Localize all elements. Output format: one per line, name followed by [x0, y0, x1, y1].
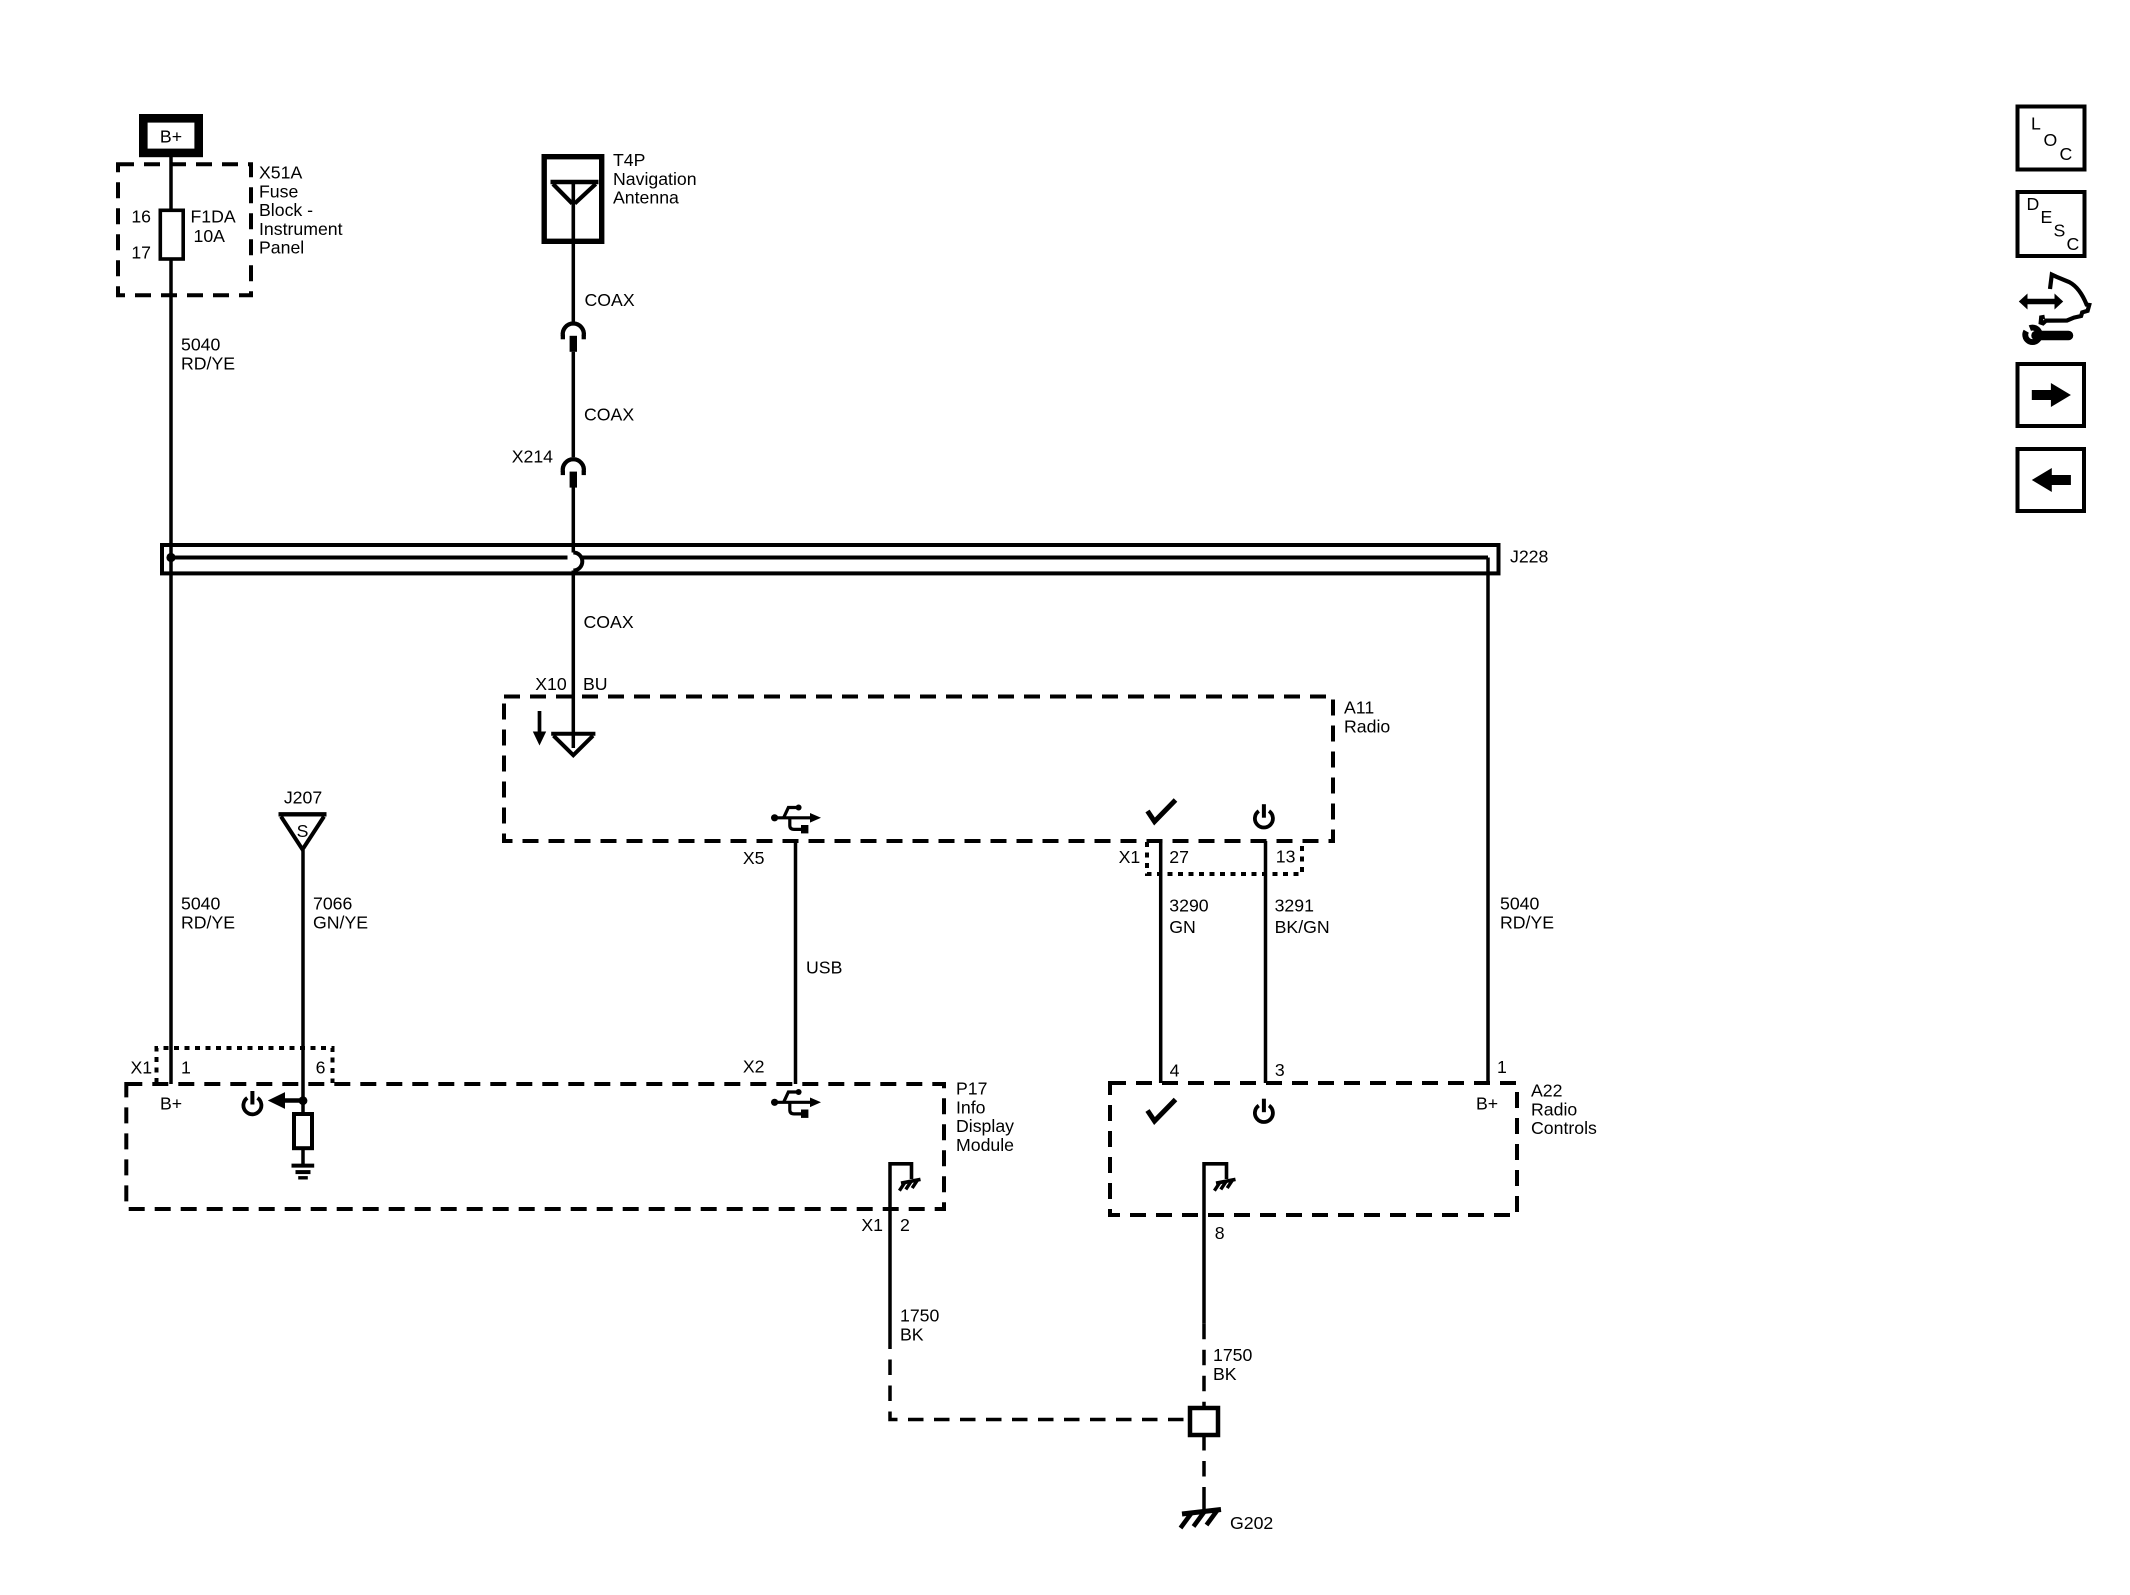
svg-text:B+: B+: [160, 127, 182, 147]
wire label 3291 BK/GN: [1275, 896, 1330, 938]
dashed wire to ground: [1202, 1435, 1206, 1496]
svg-text:5040: 5040: [181, 335, 221, 355]
coax inline connector 1: [563, 323, 584, 351]
svg-text:X1: X1: [1119, 847, 1141, 867]
junction dot: [299, 1096, 308, 1105]
wire resistor to ground: [301, 1148, 305, 1165]
X1 connector dotted box at P17: [157, 1048, 333, 1083]
wire 5040 right from bus: [1486, 558, 1490, 1084]
P17 label: [956, 1079, 1014, 1155]
svg-text:Module: Module: [956, 1135, 1014, 1155]
svg-text:COAX: COAX: [584, 405, 634, 425]
svg-text:RD/YE: RD/YE: [181, 353, 235, 373]
svg-text:Fuse: Fuse: [259, 181, 298, 201]
svg-text:1: 1: [1497, 1057, 1507, 1077]
svg-text:B+: B+: [160, 1094, 182, 1114]
svg-text:COAX: COAX: [584, 612, 634, 632]
wire pin6 into P17: [301, 1084, 305, 1114]
wire label 1750 BK left: [900, 1306, 940, 1345]
svg-text:X214: X214: [512, 447, 553, 467]
coax wire below bus: [572, 571, 576, 749]
junction dot on bus: [166, 553, 175, 562]
svg-text:5040: 5040: [181, 894, 221, 914]
arrow to power symbol: [268, 1092, 303, 1109]
svg-text:COAX: COAX: [585, 290, 635, 310]
antenna input arrow: [533, 711, 546, 746]
power symbol in A11: [1255, 804, 1273, 827]
splice square: [1190, 1408, 1218, 1435]
svg-text:8: 8: [1215, 1223, 1225, 1243]
svg-text:BK: BK: [1213, 1364, 1237, 1384]
svg-text:RD/YE: RD/YE: [1500, 912, 1554, 932]
svg-text:L: L: [2031, 114, 2041, 134]
prev page arrow box: [2018, 449, 2085, 511]
svg-text:A22: A22: [1531, 1081, 1562, 1101]
svg-text:X51A: X51A: [259, 163, 302, 183]
J228 bus inner line right: [582, 556, 1488, 560]
USB wire X5 to X2: [794, 841, 798, 1084]
svg-text:Radio: Radio: [1531, 1099, 1577, 1119]
P17 info display module dashed box: [126, 1084, 944, 1209]
LOC nav box: [2018, 107, 2085, 170]
connector repair icon: [2017, 275, 2089, 345]
svg-text:E: E: [2041, 207, 2053, 227]
bus hop arc at coax crossing: [573, 553, 582, 571]
svg-text:X5: X5: [743, 848, 765, 868]
wire label 7066 GN/YE: [313, 894, 368, 933]
svg-text:13: 13: [1276, 847, 1296, 867]
wire 1750 BK from P17 pin 2: [888, 1209, 892, 1334]
A22 radio controls dashed box: [1110, 1083, 1517, 1215]
svg-text:X1: X1: [861, 1215, 883, 1235]
svg-text:GN: GN: [1169, 917, 1196, 937]
next page arrow box: [2018, 364, 2085, 426]
svg-text:27: 27: [1169, 847, 1189, 867]
svg-text:C: C: [2067, 234, 2080, 254]
svg-text:P17: P17: [956, 1079, 987, 1099]
svg-text:S: S: [2054, 221, 2066, 241]
A11 label: [1344, 698, 1390, 737]
svg-text:5040: 5040: [1500, 894, 1540, 914]
svg-text:Instrument: Instrument: [259, 219, 343, 239]
coax wire antenna to first connector: [572, 244, 576, 322]
T4P label: [613, 150, 697, 208]
svg-text:3291: 3291: [1275, 896, 1314, 916]
B+ power terminal: [143, 118, 198, 153]
wire 3291 BK/GN: [1264, 841, 1268, 1083]
svg-text:Panel: Panel: [259, 238, 304, 258]
coax inline connector X214: [563, 459, 584, 487]
svg-text:Controls: Controls: [1531, 1118, 1597, 1138]
svg-text:A11: A11: [1344, 698, 1374, 718]
coax wire segment 2: [572, 352, 576, 457]
DESC nav box: [2018, 192, 2085, 256]
svg-text:X2: X2: [743, 1057, 765, 1077]
svg-text:BU: BU: [583, 674, 608, 694]
svg-text:T4P: T4P: [613, 150, 645, 170]
wire label 1750 BK right: [1213, 1345, 1253, 1384]
wire pin8 inside A22: [1202, 1162, 1206, 1215]
J228 bus bar outer: [162, 545, 1499, 573]
G202 ground: [1181, 1510, 1222, 1529]
svg-text:16: 16: [131, 207, 151, 227]
svg-text:Antenna: Antenna: [613, 188, 679, 208]
svg-text:1: 1: [181, 1058, 191, 1078]
resistor in P17: [294, 1114, 312, 1148]
X1 connector dotted box at A11: [1147, 842, 1302, 874]
svg-text:1750: 1750: [1213, 1345, 1253, 1365]
svg-text:Display: Display: [956, 1116, 1014, 1136]
wire label 5040 RD/YE lower left: [181, 894, 235, 933]
svg-text:Navigation: Navigation: [613, 169, 697, 189]
svg-text:3: 3: [1275, 1060, 1285, 1080]
svg-text:O: O: [2044, 130, 2058, 150]
svg-text:X10: X10: [535, 674, 567, 694]
coax wire segment 3: [572, 488, 576, 553]
svg-text:J228: J228: [1510, 547, 1549, 567]
svg-text:USB: USB: [806, 958, 842, 978]
wire label 3290 GN: [1169, 896, 1209, 938]
svg-text:RD/YE: RD/YE: [181, 912, 235, 932]
checkmark symbol in A11: [1148, 800, 1176, 822]
J207 splice triangle: [279, 788, 327, 850]
svg-text:4: 4: [1170, 1061, 1180, 1081]
wire 3290 GN: [1159, 841, 1163, 1083]
USB symbol in A11: [771, 805, 821, 834]
power symbol in P17: [243, 1091, 261, 1114]
J228 bus inner line left: [171, 556, 568, 560]
checkmark symbol in A22: [1148, 1100, 1176, 1122]
antenna input triangle: [551, 734, 595, 755]
svg-text:F1DA: F1DA: [191, 207, 236, 227]
internal chassis ground in A22: [1204, 1164, 1236, 1191]
svg-text:17: 17: [131, 243, 151, 263]
fuse F1DA 10A: [160, 207, 236, 260]
svg-text:1750: 1750: [900, 1306, 940, 1326]
svg-text:6: 6: [316, 1058, 326, 1078]
svg-text:C: C: [2060, 144, 2073, 164]
fuse block label X51A: [259, 163, 343, 258]
wire pin2 inside P17: [888, 1162, 892, 1209]
wire label 5040 RD/YE upper: [181, 335, 235, 374]
svg-text:B+: B+: [1476, 1094, 1498, 1114]
svg-text:Radio: Radio: [1344, 716, 1390, 736]
wire 5040 RD/YE upper: [169, 259, 173, 1084]
svg-text:2: 2: [900, 1215, 910, 1235]
fuse block X51A dashed box: [118, 164, 251, 295]
T4P navigation antenna box: [544, 157, 602, 244]
wire 1750 BK from A22 pin 8: [1202, 1215, 1206, 1324]
svg-text:Block -: Block -: [259, 200, 313, 220]
wire B+ to fuse: [169, 157, 173, 210]
wire label 5040 RD/YE right: [1500, 894, 1554, 933]
signal ground in P17: [292, 1166, 315, 1178]
svg-text:GN/YE: GN/YE: [313, 912, 368, 932]
svg-text:BK: BK: [900, 1324, 924, 1344]
svg-text:3290: 3290: [1169, 896, 1209, 916]
USB symbol in P17: [771, 1089, 821, 1118]
A11 radio dashed box: [504, 697, 1333, 842]
A22 label: [1531, 1081, 1597, 1139]
wire 7066 GN/YE: [301, 850, 305, 1084]
svg-text:S: S: [297, 821, 309, 841]
internal chassis ground in P17: [890, 1164, 921, 1191]
svg-text:X1: X1: [131, 1058, 153, 1078]
svg-text:10A: 10A: [194, 226, 226, 246]
svg-text:G202: G202: [1230, 1513, 1273, 1533]
svg-text:7066: 7066: [313, 894, 353, 914]
svg-text:J207: J207: [284, 788, 322, 808]
power symbol in A22: [1255, 1099, 1273, 1122]
svg-text:BK/GN: BK/GN: [1275, 917, 1330, 937]
svg-text:D: D: [2027, 194, 2040, 214]
svg-text:Info: Info: [956, 1097, 986, 1117]
